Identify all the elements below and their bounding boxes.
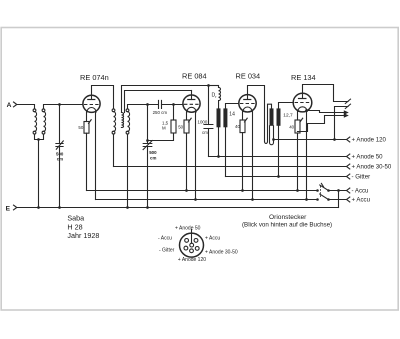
svg-text:- Accu: - Accu xyxy=(158,236,172,242)
wire coil bottoms to junction xyxy=(35,134,44,140)
svg-text:+ Anode 50: + Anode 50 xyxy=(175,226,201,232)
svg-text:- Gitter: - Gitter xyxy=(352,174,371,181)
svg-text:H 28: H 28 xyxy=(67,222,82,231)
wire R4 to minus bus xyxy=(242,133,244,191)
node at plus bus xyxy=(194,198,197,201)
resistor R1 50 rheostat xyxy=(78,112,91,133)
node at plus bus xyxy=(305,198,308,201)
svg-text:E: E xyxy=(6,206,11,213)
node antenna cap tap xyxy=(58,103,61,106)
svg-text:40: 40 xyxy=(235,124,240,129)
wire A to antenna coil xyxy=(17,105,35,110)
transformer T1 middle winding xyxy=(121,113,123,128)
terminal E xyxy=(6,205,17,213)
tube U1 RE 074n xyxy=(80,73,109,113)
node C2 at E xyxy=(146,206,149,209)
connector pin top-left xyxy=(185,239,189,243)
connector pin center xyxy=(190,243,194,247)
svg-text:14: 14 xyxy=(229,111,235,117)
choke Dr xyxy=(212,86,221,109)
wire L2 top to grid of U1 xyxy=(44,105,83,110)
svg-text:+ Anode 50: + Anode 50 xyxy=(352,154,384,161)
bus minus accu xyxy=(87,190,318,192)
wire U4 anode to loudspeaker jack 1 xyxy=(303,85,349,102)
terminal +Anode120 xyxy=(347,137,350,142)
wire R5 to minus bus xyxy=(297,133,299,191)
svg-text:12,7: 12,7 xyxy=(283,113,293,119)
node grid tap to C2 xyxy=(146,103,149,106)
connector pin left xyxy=(184,246,188,250)
wire grid leak bottom to C2 line xyxy=(148,133,174,141)
wire R3 to minus filament bus xyxy=(186,133,188,191)
svg-text:- Accu: - Accu xyxy=(352,188,369,195)
wire S2 to +Accu terminal xyxy=(329,199,347,201)
wire C2 to E line xyxy=(147,147,149,208)
node +Anode120 rail start xyxy=(272,138,275,141)
wire T1 primary bottom to +Anode30-50 rail xyxy=(113,134,115,167)
rail -Gitter xyxy=(226,176,347,178)
transformer T3 primary bar xyxy=(270,108,274,125)
wire U1 anode up and to T1 primary xyxy=(92,86,114,110)
switch S2 xyxy=(316,194,330,201)
node leak at C2 line xyxy=(146,139,149,142)
wire filament tap to jack 3 xyxy=(307,111,348,113)
wire U3 right filament to plus bus xyxy=(252,112,254,200)
node at plus bus xyxy=(251,198,254,201)
wire T1 middle right lead to U2 anode xyxy=(125,91,192,113)
wire U1 right filament down xyxy=(95,112,97,200)
transformer T2 primary bar xyxy=(217,108,221,127)
wire T1 secondary top to U2 grid xyxy=(128,105,159,110)
svg-text:40: 40 xyxy=(289,125,294,130)
rail +Anode30-50 xyxy=(114,166,347,168)
bus plus accu xyxy=(96,199,318,201)
wire Anode50 label to center pin xyxy=(191,230,193,244)
rail +Anode50 xyxy=(209,156,347,158)
connector pin bottom-right xyxy=(195,247,199,251)
jack 3 plug arrow xyxy=(344,110,349,114)
svg-text:RE 084: RE 084 xyxy=(182,72,207,81)
transformer T3 primary hairpin xyxy=(265,104,272,143)
svg-text:+ Anode 120: + Anode 120 xyxy=(352,137,387,144)
wire U2 anode lead xyxy=(191,91,193,100)
jack 1 tick xyxy=(345,99,350,103)
svg-text:1000: 1000 xyxy=(198,119,208,124)
svg-text:RE 034: RE 034 xyxy=(236,72,261,81)
wire tap down to capacitor C2 xyxy=(147,105,149,144)
wire T2 secondary top to U3 grid xyxy=(226,104,240,109)
wire U4 right filament to plus bus xyxy=(306,111,308,199)
switch gang link xyxy=(320,186,322,198)
terminal A xyxy=(7,102,17,109)
node R4 at bus xyxy=(241,189,244,192)
node jack2 at +Anode120 xyxy=(333,138,336,141)
wire T1 secondary bottom to E line xyxy=(127,134,129,208)
node grid leak tap xyxy=(172,103,175,106)
wire top bus to choke xyxy=(209,85,219,87)
wire C1 to E line xyxy=(59,147,61,208)
node T3 at -Gitter xyxy=(277,175,280,178)
terminal +Accu xyxy=(347,197,350,202)
node T1 secondary at E xyxy=(126,206,129,209)
wire tap down to capacitor C1 xyxy=(59,105,61,144)
wire C4 to +Anode50 rail xyxy=(208,129,210,157)
wire jack 2 stub to +Anode120 xyxy=(335,107,349,140)
wire E line xyxy=(17,207,339,209)
wire T3 secondary top to U4 grid xyxy=(279,103,294,109)
connector pin bottom-center xyxy=(190,249,194,253)
wire T2 primary bottom to +Anode50 rail xyxy=(218,127,220,156)
svg-text:+ Accu: + Accu xyxy=(205,236,220,242)
svg-text:+ Accu: + Accu xyxy=(352,197,370,204)
transformer T1 secondary coil xyxy=(126,109,129,134)
svg-text:cm: cm xyxy=(150,155,156,160)
transformer T2 secondary bar xyxy=(223,108,227,127)
wire S1 to -Accu terminal xyxy=(329,190,347,192)
rail +Anode120 xyxy=(274,139,347,141)
capacitor C3 250cm xyxy=(153,100,168,115)
node R5 at bus xyxy=(296,189,299,192)
resistor R5 40 rheostat xyxy=(289,111,303,133)
wire U3 anode to T3 xyxy=(248,86,265,142)
connector socket outline xyxy=(180,233,204,257)
jack 2 tick xyxy=(345,104,350,108)
node T2 at +Anode50 xyxy=(217,155,220,158)
svg-text:RE 074n: RE 074n xyxy=(80,73,109,82)
wire U1 left filament down xyxy=(86,133,88,190)
transformer T3 primary lower hairpin xyxy=(270,126,274,145)
node top bus to C4 xyxy=(207,84,210,87)
svg-text:A: A xyxy=(7,102,12,109)
wire E riser xyxy=(338,191,340,208)
terminal +Anode30-50 xyxy=(347,164,350,169)
transformer T1 primary coil xyxy=(112,109,115,134)
capacitor C1 500cm variable xyxy=(56,141,64,162)
transformer T3 secondary bar xyxy=(277,108,281,125)
node R3 at bus xyxy=(185,189,188,192)
capacitor C4 1000cm xyxy=(198,86,213,136)
svg-text:Saba: Saba xyxy=(67,214,84,223)
jack 4 plug arrow xyxy=(344,113,349,117)
node filament jack tap xyxy=(305,109,308,112)
switch S1 xyxy=(316,183,330,191)
svg-text:+ Anode 30-50: + Anode 30-50 xyxy=(205,250,238,256)
capacitor C2 500cm variable xyxy=(143,141,157,161)
svg-text:M: M xyxy=(162,126,166,131)
svg-text:250 cm: 250 cm xyxy=(153,110,168,115)
wire T1 middle left lead to top bus xyxy=(122,86,209,113)
svg-text:- Gitter: - Gitter xyxy=(159,247,175,253)
secondary coil L2 xyxy=(42,109,45,134)
resistor R2 1,5M grid leak xyxy=(162,105,176,134)
terminal -Gitter xyxy=(347,174,350,179)
resistor R3 50 rheostat xyxy=(178,112,191,133)
tube U4 RE 134 xyxy=(291,73,316,112)
svg-text:50: 50 xyxy=(78,125,83,130)
tube U3 RE 034 xyxy=(236,72,261,113)
wire T2 secondary bottom to -Gitter rail xyxy=(225,127,227,176)
svg-text:50: 50 xyxy=(178,124,183,129)
wire C3 to U2 grid xyxy=(162,104,184,106)
resistor R4 40 rheostat xyxy=(235,112,247,133)
wire junction to E line xyxy=(38,140,40,208)
wire jack 4 to cathode line xyxy=(298,116,348,132)
svg-text:Jahr 1928: Jahr 1928 xyxy=(67,231,99,240)
svg-text:(Blick von hinten auf die Buch: (Blick von hinten auf die Buchse) xyxy=(242,221,332,228)
connector pin top-right xyxy=(194,239,198,243)
node coil bottom junction xyxy=(37,138,40,141)
node coil junction at E xyxy=(37,206,40,209)
node C1 at E xyxy=(58,206,61,209)
tube U2 RE 084 xyxy=(182,72,207,113)
svg-text:+ Anode 30-50: + Anode 30-50 xyxy=(352,164,392,171)
antenna coil L1 xyxy=(33,109,36,134)
terminal +Anode50 xyxy=(347,154,350,159)
wire U2 right filament to plus bus xyxy=(195,112,197,200)
terminal -Accu xyxy=(347,188,350,193)
svg-text:Orionstecker: Orionstecker xyxy=(269,214,307,221)
wire T3 secondary bottom to -Gitter rail xyxy=(278,126,280,177)
svg-text:+ Anode 120: + Anode 120 xyxy=(178,257,206,263)
node E riser xyxy=(337,189,340,192)
svg-text:RE 134: RE 134 xyxy=(291,73,316,82)
svg-text:cm: cm xyxy=(202,130,208,135)
